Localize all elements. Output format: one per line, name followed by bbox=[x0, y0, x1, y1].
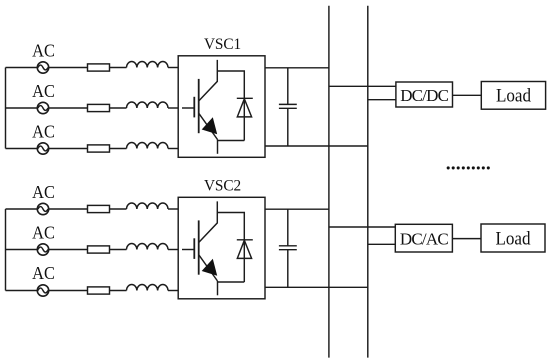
left bus bottom group bbox=[5, 209, 7, 291]
capacitor C2 bottom lead bbox=[287, 250, 289, 288]
diode D1 cathode bar bbox=[237, 97, 253, 99]
IGBT Q1 emitter diagonal bbox=[199, 113, 218, 139]
resistor phase C bottom bbox=[88, 287, 110, 294]
wire after inductor B bottom bbox=[168, 249, 178, 251]
IGBT Q1 gate lead bbox=[182, 107, 194, 109]
DC/DC converter box bbox=[396, 82, 453, 107]
capacitor C1 bottom lead bbox=[287, 108, 289, 146]
VSC2 top rail bbox=[265, 208, 329, 210]
svg-text:AC: AC bbox=[32, 41, 55, 61]
IGBT Q2 gate lead bbox=[182, 249, 194, 251]
svg-text:AC: AC bbox=[32, 263, 55, 283]
inductor phase C top bbox=[127, 142, 169, 148]
ellipsis dots bbox=[447, 166, 490, 169]
DC/AC to Load wire bbox=[452, 238, 481, 240]
DC/DC to Load wire bbox=[453, 94, 482, 96]
DC/AC converter box bbox=[395, 224, 452, 252]
inductor phase B bottom bbox=[127, 243, 169, 249]
wire after inductor A bottom bbox=[168, 208, 178, 210]
svg-text:VSC1: VSC1 bbox=[204, 36, 241, 53]
resistor phase B bottom bbox=[88, 246, 110, 253]
diode D1 top wire bbox=[217, 71, 244, 141]
DC bus line 2 bbox=[367, 6, 369, 358]
inductor phase A bottom bbox=[127, 203, 169, 209]
IGBT Q1 collector lead bbox=[199, 60, 218, 101]
DC/AC feed wire 1 bbox=[329, 226, 395, 228]
resistor phase C top bbox=[88, 145, 110, 152]
inductor phase C bottom bbox=[127, 284, 169, 290]
capacitor C2 plates bbox=[279, 245, 297, 247]
diode D1 bottom wire bbox=[218, 140, 245, 142]
wire after inductor C bottom bbox=[168, 290, 178, 292]
wire phase A top bbox=[6, 67, 127, 69]
VSC1 bottom rail bbox=[265, 145, 368, 147]
resistor phase A top bbox=[88, 64, 110, 71]
svg-text:Load: Load bbox=[496, 85, 531, 106]
VSC1 top rail bbox=[265, 67, 329, 69]
diode D2 triangle bbox=[237, 240, 251, 258]
svg-text:DC/AC: DC/AC bbox=[400, 230, 448, 249]
AC source 2 bbox=[37, 102, 48, 113]
VSC2 box bbox=[178, 197, 265, 298]
DC/DC feed wire 2 bbox=[368, 99, 396, 101]
IGBT Q1 emitter lead bbox=[217, 140, 219, 154]
VSC2 bottom rail bbox=[265, 286, 368, 288]
diode D2 bottom wire bbox=[218, 281, 245, 283]
svg-text:Load: Load bbox=[495, 228, 530, 249]
inductor phase A top bbox=[127, 61, 169, 67]
IGBT Q2 emitter diagonal bbox=[199, 255, 218, 281]
IGBT Q1 emitter arrow bbox=[202, 117, 218, 134]
capacitor C1 plates bbox=[279, 103, 297, 105]
IGBT Q2 emitter lead bbox=[217, 281, 219, 295]
diode D2 cathode bar bbox=[237, 239, 253, 241]
left bus top group bbox=[5, 68, 7, 149]
wire after inductor C bbox=[168, 148, 178, 150]
resistor phase A bottom bbox=[88, 205, 110, 212]
wire after inductor A bbox=[168, 67, 178, 69]
IGBT Q2 emitter arrow bbox=[202, 259, 218, 276]
AC source 3 bbox=[37, 143, 48, 154]
wire phase C top bbox=[6, 148, 127, 150]
IGBT Q2 gate bar bbox=[193, 238, 195, 259]
DC bus line 1 bbox=[328, 6, 330, 358]
svg-text:AC: AC bbox=[32, 122, 55, 142]
svg-text:DC/DC: DC/DC bbox=[400, 86, 448, 105]
wire after inductor B bbox=[168, 107, 178, 109]
AC source 1 bbox=[37, 62, 48, 73]
Load box bottom bbox=[481, 224, 545, 252]
IGBT Q1 gate bar bbox=[193, 97, 195, 118]
svg-text:AC: AC bbox=[32, 81, 55, 101]
wire phase B top bbox=[6, 107, 127, 109]
inductor phase B top bbox=[127, 102, 169, 108]
wire phase B bottom bbox=[6, 249, 127, 251]
AC source 4 bbox=[37, 203, 48, 214]
wire phase C bottom bbox=[6, 290, 127, 292]
capacitor C1 top lead bbox=[287, 68, 289, 105]
svg-text:AC: AC bbox=[32, 223, 55, 243]
DC/AC feed wire 2 bbox=[368, 243, 396, 245]
IGBT Q2 main bar bbox=[198, 220, 200, 274]
svg-text:VSC2: VSC2 bbox=[204, 178, 241, 195]
resistor phase B top bbox=[88, 104, 110, 111]
AC source 5 bbox=[37, 244, 48, 255]
IGBT Q1 main bar bbox=[198, 79, 200, 133]
IGBT Q2 collector lead bbox=[199, 201, 218, 242]
Load box top bbox=[481, 82, 545, 110]
DC/DC feed wire 1 bbox=[329, 85, 396, 87]
wire phase A bottom bbox=[6, 208, 127, 210]
diode D2 top wire bbox=[217, 213, 244, 283]
svg-text:AC: AC bbox=[32, 182, 55, 202]
AC source 6 bbox=[37, 285, 48, 296]
diode D1 triangle bbox=[237, 99, 251, 117]
capacitor C2 top lead bbox=[287, 209, 289, 246]
VSC1 box bbox=[178, 56, 265, 158]
